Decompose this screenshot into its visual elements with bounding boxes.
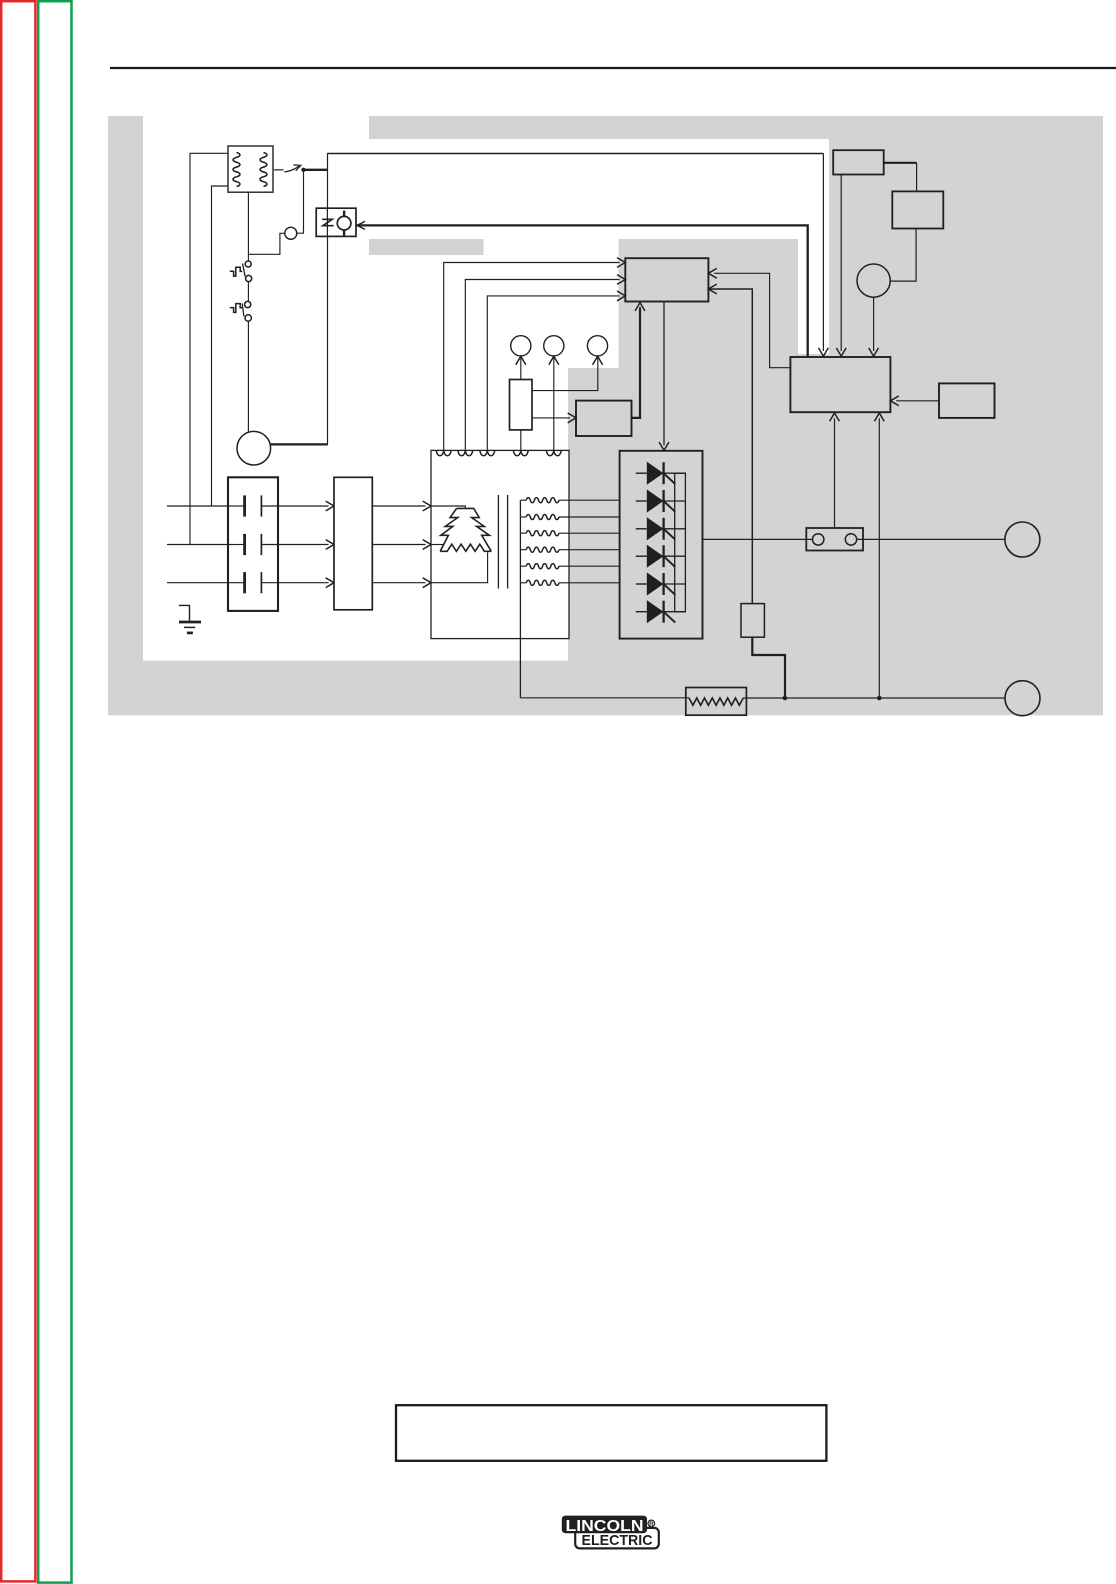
lamp P1 circle bbox=[511, 336, 531, 356]
node R2 junction dot bbox=[783, 696, 788, 701]
wire T2 bottom lead bbox=[247, 192, 249, 261]
box CR2 top right bbox=[833, 150, 884, 174]
arrow tap1 PCB bbox=[617, 258, 625, 268]
arrow 42V control PCB bbox=[635, 303, 645, 311]
contactor CR1 contacts bbox=[228, 505, 244, 507]
wire phase L2 input bbox=[167, 544, 228, 546]
SCR bridge box bbox=[620, 451, 703, 639]
wire T2 secondary stub bbox=[273, 169, 284, 171]
wire thermostat to breaker bbox=[248, 233, 284, 254]
wire T2 primary top bbox=[190, 153, 228, 544]
breaker CB1 contact a bbox=[245, 261, 251, 267]
schematic gray background bbox=[108, 116, 1103, 715]
breaker CB2 contact b bbox=[245, 315, 251, 321]
wire bridge output right bbox=[856, 538, 1005, 540]
white corridor right wires bbox=[798, 239, 829, 354]
wire L3 to delta bbox=[431, 552, 488, 583]
wire switch branch down bbox=[297, 170, 304, 233]
wire feedback riser bbox=[878, 418, 880, 698]
pot circle bbox=[857, 264, 890, 297]
HF unit box bbox=[316, 208, 356, 236]
wire firing PCB to control a bbox=[714, 273, 790, 367]
polarity box right bbox=[939, 383, 995, 418]
wire L1 to delta bbox=[431, 506, 465, 508]
wire tap1 to PCB bbox=[444, 263, 620, 451]
arrow P3 bbox=[593, 356, 603, 365]
white area control wires bbox=[484, 239, 619, 255]
stabilizer zigzag element bbox=[689, 698, 743, 705]
arrow into control a bbox=[708, 268, 716, 278]
wire tap2 to PCB bbox=[465, 280, 619, 451]
firing PCB box bbox=[790, 357, 890, 412]
arrow P2 bbox=[549, 356, 559, 365]
header rule bbox=[110, 67, 1116, 69]
wire 42V to control PCB bbox=[632, 307, 641, 418]
wire work lead left bbox=[520, 697, 689, 699]
arrow tap3 PCB bbox=[617, 291, 625, 301]
arrow into SCR bridge bbox=[659, 442, 669, 450]
breaker CB1 blade bbox=[243, 264, 246, 277]
wire L3 to filter bbox=[278, 582, 329, 584]
shunt box bbox=[806, 528, 863, 551]
T1 top winding taps bbox=[436, 451, 451, 456]
switch S1 arrowhead bbox=[293, 162, 302, 170]
node switch output dot bbox=[301, 168, 305, 172]
arrow L2 T1 bbox=[423, 540, 431, 550]
wire bridge output left bbox=[703, 538, 813, 540]
control PCB box bbox=[625, 258, 708, 301]
HF lamp circle bbox=[337, 216, 351, 230]
wire remote to pot bbox=[890, 229, 916, 282]
breaker CB1 trip symbol bbox=[230, 267, 242, 276]
wire L2 to delta bbox=[431, 544, 444, 546]
HF feed arrowhead bbox=[357, 221, 365, 229]
arrow top run drop bbox=[819, 348, 829, 356]
shunt terminal a bbox=[813, 534, 824, 545]
wire PCB to SCR bridge bbox=[663, 302, 665, 446]
transformer T2 right coil bbox=[260, 153, 267, 187]
lamp P3 circle bbox=[587, 336, 607, 356]
SCR elements bbox=[636, 472, 647, 474]
line filter box bbox=[334, 477, 372, 610]
wire control to R2 bbox=[708, 289, 752, 604]
arrow pot drop bbox=[869, 348, 879, 356]
T1 delta primary winding bbox=[457, 508, 492, 551]
T1 secondary bus bbox=[519, 500, 521, 698]
wire CR2 drop bbox=[840, 175, 842, 352]
T1 core lines bbox=[497, 495, 499, 589]
SCR cathode bus bbox=[675, 473, 686, 612]
arrow shunt sense bbox=[830, 413, 840, 421]
wire tap3 to PCB bbox=[487, 296, 619, 451]
wire L3 to T1 bbox=[372, 582, 425, 584]
HF lamp stub bottom bbox=[343, 230, 345, 236]
transformer T2 left coil bbox=[233, 153, 240, 187]
wire CB1 to CB2 bbox=[247, 282, 249, 301]
wire P1 feed bbox=[520, 358, 522, 380]
wire R1 to T1 tap bbox=[520, 430, 522, 451]
wire L1 to filter bbox=[278, 505, 329, 507]
output terminal negative bbox=[1005, 681, 1040, 716]
resistor R2 box bbox=[741, 604, 764, 638]
wire phase L3 input bbox=[167, 582, 228, 584]
wire vertical bus x327 bbox=[327, 153, 329, 444]
remote box bbox=[892, 191, 943, 228]
wire R1 to 42V box bbox=[532, 417, 570, 419]
green sidebar frame bbox=[38, 1, 71, 1582]
svg-text:R: R bbox=[649, 1521, 654, 1528]
T1 secondary windings bbox=[520, 499, 526, 501]
wire pot drop bbox=[873, 297, 875, 351]
white area transformer section bbox=[369, 368, 568, 661]
wire top long run bbox=[328, 153, 824, 155]
wire through HF box bbox=[326, 208, 328, 236]
input contactor CR1 box bbox=[228, 477, 278, 611]
resistor R1 box bbox=[510, 380, 533, 430]
node feedback dot bbox=[877, 696, 882, 701]
wire L2 to filter bbox=[278, 544, 329, 546]
note box bbox=[396, 1405, 826, 1461]
fan motor circle bbox=[237, 431, 271, 465]
ground symbol bbox=[179, 605, 190, 620]
arrow L1 T1 bbox=[423, 501, 431, 511]
arrow CR2 drop bbox=[836, 348, 846, 356]
switch S1 blade bbox=[284, 166, 299, 172]
spark gap Z symbol bbox=[322, 219, 333, 225]
red sidebar frame bbox=[1, 1, 35, 1581]
wire L1 to T1 bbox=[372, 505, 425, 507]
wire top run drop bbox=[822, 154, 824, 352]
transformer T2 box bbox=[228, 146, 273, 192]
thermostat circle bbox=[285, 227, 297, 239]
transformer T1 box bbox=[431, 450, 569, 638]
wire switch to bus bbox=[304, 169, 328, 171]
wire L2 to T1 bbox=[372, 544, 425, 546]
wire fan motor to bus bbox=[271, 443, 328, 445]
breaker CB1 contact b bbox=[246, 275, 252, 281]
white area lamp section bbox=[369, 255, 619, 368]
arrow L3 T1 bbox=[423, 578, 431, 588]
arrow L3 filter bbox=[326, 578, 334, 588]
wire P3 feed bbox=[532, 358, 598, 391]
shunt terminal b bbox=[845, 534, 856, 545]
wire shunt sense bbox=[834, 418, 836, 528]
aux box 42V bbox=[576, 401, 632, 436]
stabilizer resistor box bbox=[686, 688, 747, 716]
svg-text:ELECTRIC: ELECTRIC bbox=[582, 1532, 653, 1549]
Lincoln Electric logo bbox=[562, 1516, 659, 1550]
arrow L2 filter bbox=[326, 540, 334, 550]
wire phase L1 input bbox=[167, 505, 228, 507]
wire R2 step down bbox=[752, 637, 785, 696]
wire T2 primary bottom bbox=[212, 186, 229, 506]
wire CR2 to remote box bbox=[884, 162, 917, 164]
HF lamp stub top bbox=[343, 211, 345, 217]
arrow L1 filter bbox=[326, 501, 334, 511]
white band top wires bbox=[369, 139, 829, 239]
white area input section bbox=[143, 116, 369, 661]
wire remote drop bbox=[916, 163, 918, 192]
arrow into 42V box bbox=[568, 413, 576, 423]
breaker CB2 trip symbol bbox=[230, 304, 242, 313]
breaker CB2 contact a bbox=[245, 301, 251, 307]
wire polarity to firing PCB bbox=[896, 400, 939, 402]
arrow P1 bbox=[516, 356, 526, 365]
arrow into control b bbox=[708, 284, 716, 294]
wire HF feed bbox=[357, 225, 808, 356]
wire P2 feed bbox=[553, 358, 555, 451]
wire work lead right bbox=[743, 697, 1005, 699]
output terminal positive bbox=[1005, 522, 1040, 557]
arrow polarity firing bbox=[891, 396, 899, 406]
arrow tap2 PCB bbox=[617, 275, 625, 285]
breaker CB2 blade bbox=[242, 303, 244, 316]
arrow feedback riser bbox=[874, 413, 884, 421]
wire CB2 to fan motor bbox=[247, 322, 249, 432]
lamp P2 circle bbox=[544, 336, 564, 356]
